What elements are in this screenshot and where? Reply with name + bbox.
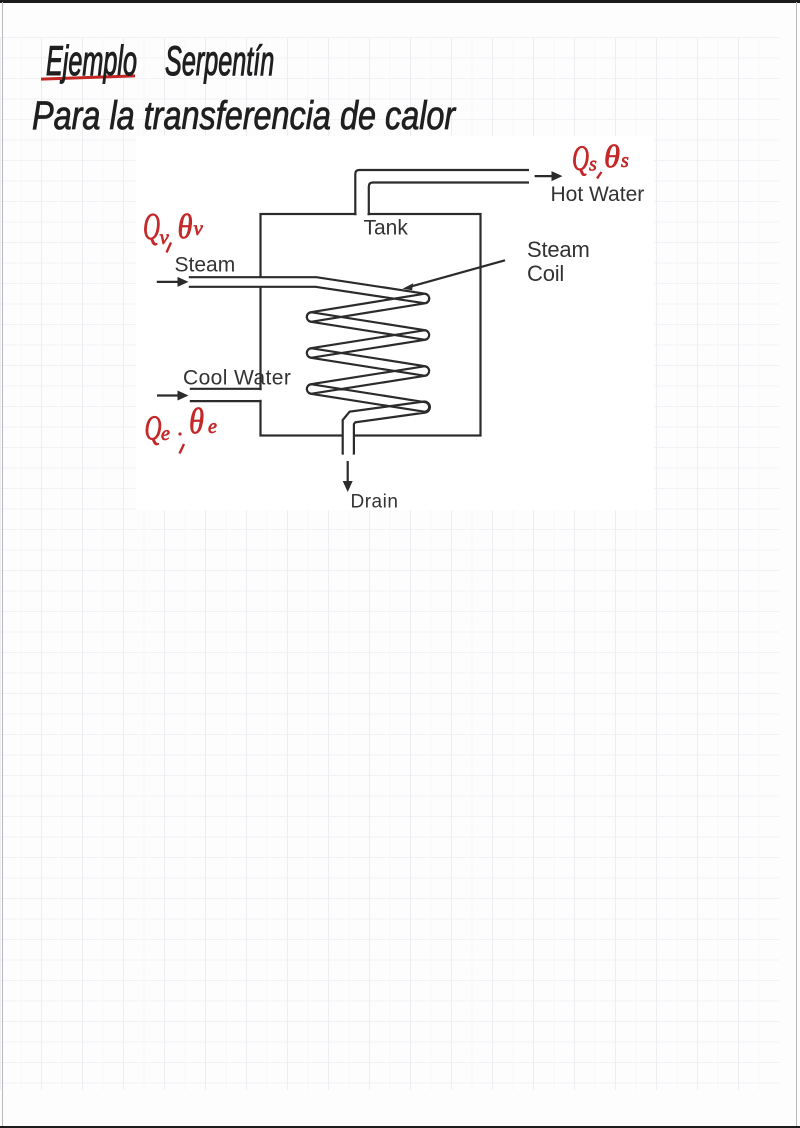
svg-text:Steam: Steam xyxy=(175,253,236,276)
svg-text:Q: Q xyxy=(143,206,160,248)
drain arrow xyxy=(347,461,349,482)
svg-text:Tank: Tank xyxy=(364,216,409,239)
steam inlet arrow xyxy=(157,281,178,283)
leader arrowhead xyxy=(403,283,414,290)
hot water outlet pipe inner line xyxy=(369,183,529,216)
gap in tank left wall for cool water pipe xyxy=(259,390,263,400)
svg-text:Hot Water: Hot Water xyxy=(551,183,645,206)
hot water outlet arrow xyxy=(535,175,552,177)
svg-text:Coil: Coil xyxy=(527,261,564,286)
top black bar xyxy=(0,0,800,3)
red semicolon dot xyxy=(178,432,181,435)
svg-text:θ: θ xyxy=(178,207,193,246)
svg-text:Drain: Drain xyxy=(351,491,399,512)
red handwritten annotations xyxy=(143,138,629,454)
svg-text:v: v xyxy=(194,216,204,240)
red comma tick 2 xyxy=(597,172,602,179)
svg-text:Cool Water: Cool Water xyxy=(183,366,291,389)
diagram labels xyxy=(175,183,645,512)
svg-text:e: e xyxy=(161,423,170,445)
left page edge line xyxy=(2,2,3,1126)
tank rectangle xyxy=(261,214,481,436)
steam pipe + coil + drain tube : white fill then black outline xyxy=(184,277,430,459)
handwritten line 2: Para la transferencia de calor xyxy=(32,94,455,139)
svg-text:s: s xyxy=(621,150,629,172)
steam coil leader line xyxy=(408,260,505,287)
red semicolon tick xyxy=(180,444,185,454)
handwritten title: Ejemplo Serpentin xyxy=(46,37,274,85)
gap in tank top wall for outlet pipe xyxy=(357,207,368,221)
svg-text:v: v xyxy=(160,225,170,249)
white background of pasted figure xyxy=(136,136,654,510)
erase steam pipe open-end cap xyxy=(182,276,189,289)
cool water pipe top line xyxy=(190,388,262,390)
red comma tick xyxy=(167,243,172,253)
svg-text:e: e xyxy=(208,416,217,438)
hot water outlet pipe outer line xyxy=(355,170,529,215)
cool water pipe bottom line xyxy=(190,400,262,402)
svg-text:s: s xyxy=(589,154,597,176)
cool water inlet arrow xyxy=(157,394,178,396)
erase drain open-end cap xyxy=(341,455,356,462)
svg-text:Q: Q xyxy=(145,409,162,448)
svg-text:θ: θ xyxy=(189,401,204,441)
red underline under Ejemplo xyxy=(41,74,135,80)
svg-text:θ: θ xyxy=(604,138,620,174)
bottom black bar xyxy=(0,1126,800,1128)
right page edge line xyxy=(796,2,797,1126)
svg-text:Q: Q xyxy=(572,138,589,178)
svg-text:Steam: Steam xyxy=(527,237,590,262)
